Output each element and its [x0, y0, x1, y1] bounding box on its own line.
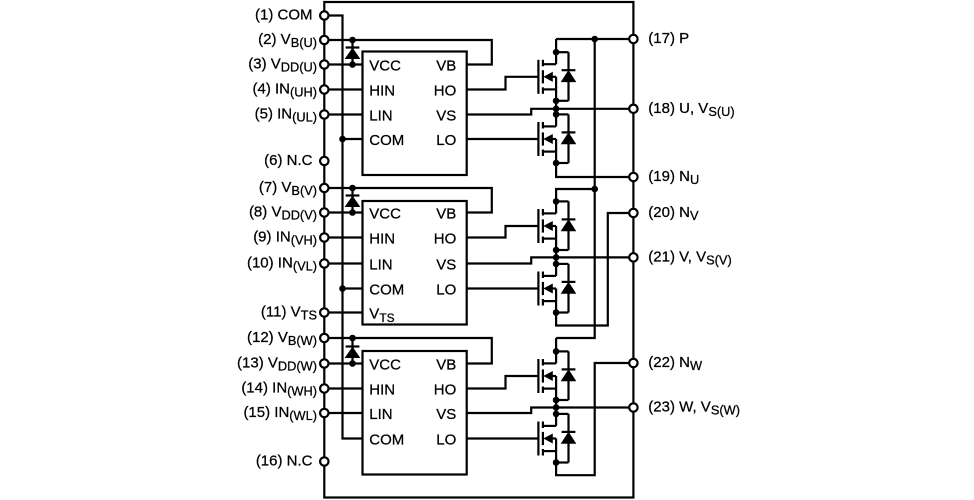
pin (22) terminal circle — [629, 359, 637, 367]
pin (2) label — [258, 31, 317, 50]
svg-text:(8) VDD(V): (8) VDD(V) — [249, 204, 317, 223]
pin (21) terminal circle — [629, 253, 637, 261]
pin (1) terminal circle — [320, 11, 328, 19]
pin (22) label — [648, 354, 703, 373]
svg-text:HO: HO — [434, 231, 457, 248]
pin (7) label — [259, 179, 317, 198]
junction drain of Q2 — [553, 111, 560, 118]
junction drain of Q4 — [553, 261, 560, 268]
svg-text:(9) IN(VH): (9) IN(VH) — [253, 229, 317, 248]
junction V_B(W)/diode cathode — [349, 335, 356, 342]
svg-text:VCC: VCC — [369, 206, 401, 223]
pin (17) label — [648, 30, 689, 47]
svg-text:(2) VB(U): (2) VB(U) — [258, 31, 317, 50]
body diode of Q5 — [556, 351, 575, 400]
svg-text:(19) NU: (19) NU — [648, 168, 699, 187]
MOSFET Q2 (U-phase low-side) — [538, 114, 556, 163]
driver U pin label COM — [369, 132, 404, 149]
junction drain of Q6 — [553, 411, 560, 418]
svg-text:(13) VDD(W): (13) VDD(W) — [237, 355, 317, 374]
pin (14) terminal circle — [320, 384, 328, 392]
wire VS(W): driver VS to output node — [467, 408, 556, 414]
wire VS(U): driver VS to output node — [467, 109, 556, 115]
bootstrap diode DV (VDD to VB) — [346, 188, 360, 213]
svg-text:LO: LO — [436, 132, 456, 149]
svg-text:VCC: VCC — [369, 357, 401, 374]
body diode of Q1 — [556, 52, 575, 101]
junction source of Q3 — [553, 247, 560, 254]
junction V_DD(V)/diode anode — [349, 209, 356, 216]
junction V_DD(U)/diode anode — [349, 61, 356, 68]
driver W pin label HIN — [369, 382, 395, 399]
junction drain of Q3 — [553, 198, 560, 205]
driver V pin label VCC — [369, 206, 401, 223]
node P bus top junction — [591, 36, 598, 43]
pin (9) terminal circle — [320, 233, 328, 241]
wire VS(V): driver VS to output node — [467, 257, 556, 263]
pin (11) terminal circle — [320, 308, 328, 316]
wire VDD(W): pin to driver VCC — [324, 362, 362, 364]
driver V pin label HO — [434, 231, 457, 248]
wire LO(U): driver LO to low-side gate — [467, 138, 539, 140]
module outline — [324, 2, 633, 498]
pin (7) terminal circle — [320, 184, 328, 192]
svg-text:(22) NW: (22) NW — [648, 354, 703, 373]
svg-text:(20) NV: (20) NV — [648, 204, 699, 223]
pin (4) label — [252, 81, 317, 100]
svg-text:VB: VB — [436, 357, 456, 374]
junction V_B(V)/diode cathode — [349, 185, 356, 192]
driver IC U-phase (half-bridge gate driver) — [363, 52, 467, 176]
pin (6) label — [264, 152, 313, 169]
svg-text:HO: HO — [434, 83, 457, 100]
wire P bus vertical — [556, 39, 595, 338]
wire Q4 source to pin (20) N_V — [556, 213, 633, 326]
svg-text:(6) N.C: (6) N.C — [264, 152, 313, 169]
svg-text:VS: VS — [436, 406, 456, 423]
wire U-phase mid node vertical — [555, 101, 557, 115]
wire P rail to pin (17) — [556, 38, 633, 40]
svg-text:(10) IN(VL): (10) IN(VL) — [247, 255, 317, 274]
junction P bus / Q3 drain feed — [591, 186, 598, 193]
body diode of Q3 — [556, 201, 575, 250]
pin (10) label — [247, 255, 317, 274]
svg-text:VTS: VTS — [369, 306, 394, 325]
driver W pin label VS — [436, 406, 456, 423]
pin (11) label — [261, 304, 317, 323]
driver U pin label LIN — [369, 108, 392, 125]
svg-text:LIN: LIN — [369, 257, 392, 274]
MOSFET Q3 (V-phase high-side) — [538, 201, 556, 250]
driver V pin label HIN — [369, 231, 395, 248]
svg-text:HIN: HIN — [369, 231, 395, 248]
driver V pin label LO — [436, 282, 456, 299]
body diode of Q4 — [556, 264, 575, 313]
pin (13) terminal circle — [320, 359, 328, 367]
driver V pin label VS — [436, 257, 456, 274]
svg-text:COM: COM — [369, 282, 404, 299]
wire VB(U) bootstrap supply: pin to driver VB — [324, 40, 492, 65]
pin (13) label — [237, 355, 317, 374]
wire HO(W): driver HO to high-side gate — [467, 376, 539, 389]
svg-text:(12) VB(W): (12) VB(W) — [247, 329, 317, 348]
pin (5) terminal circle — [320, 110, 328, 118]
wire VTS: pin (11) to driver V_TS — [324, 311, 362, 313]
driver IC W-phase (half-bridge gate driver) — [363, 351, 467, 475]
wire IN(UH): pin to driver HIN — [324, 88, 362, 90]
svg-text:LIN: LIN — [369, 108, 392, 125]
wire IN(VL): pin to driver LIN — [324, 262, 362, 264]
svg-text:LIN: LIN — [369, 406, 392, 423]
MOSFET Q1 (U-phase high-side) — [538, 52, 556, 101]
junction drain of Q5 — [553, 348, 560, 355]
svg-text:(11) VTS: (11) VTS — [261, 304, 317, 323]
svg-text:VS: VS — [436, 257, 456, 274]
wire COM tap to U driver — [343, 138, 363, 140]
svg-text:(3) VDD(U): (3) VDD(U) — [248, 56, 317, 75]
svg-text:(14) IN(WH): (14) IN(WH) — [241, 380, 317, 399]
pin (23) terminal circle — [629, 403, 637, 411]
svg-text:VCC: VCC — [369, 58, 401, 75]
wire node to pin (23) W — [556, 406, 633, 408]
driver U pin label VB — [436, 58, 456, 75]
driver IC V-phase (half-bridge gate driver) — [363, 201, 467, 325]
svg-text:(16) N.C: (16) N.C — [256, 453, 313, 470]
svg-text:COM: COM — [369, 432, 404, 449]
pin (14) label — [241, 380, 317, 399]
svg-text:(21) V, VS(V): (21) V, VS(V) — [648, 248, 731, 267]
pin (12) terminal circle — [320, 334, 328, 342]
svg-text:(5) IN(UL): (5) IN(UL) — [255, 106, 317, 125]
svg-text:VS: VS — [436, 108, 456, 125]
pin (18) terminal circle — [629, 105, 637, 113]
driver W pin label VCC — [369, 357, 401, 374]
pin (9) label — [253, 229, 317, 248]
wire HO(U): driver HO to high-side gate — [467, 77, 539, 90]
wire Q1 drain to P rail — [555, 39, 557, 52]
svg-text:(7) VB(V): (7) VB(V) — [259, 179, 317, 198]
junction source of Q2 — [553, 160, 560, 167]
junction V_B(U)/diode cathode — [349, 37, 356, 44]
junction source of Q5 — [553, 397, 560, 404]
pin (3) terminal circle — [320, 60, 328, 68]
svg-text:LO: LO — [436, 432, 456, 449]
wire V-phase mid node vertical — [555, 250, 557, 264]
junction COM bus / U driver — [339, 136, 346, 143]
svg-text:VB: VB — [436, 58, 456, 75]
driver W pin label VB — [436, 357, 456, 374]
pin (12) label — [247, 329, 317, 348]
svg-text:(15) IN(WL): (15) IN(WL) — [243, 404, 317, 423]
wire Q2 source to pin (19) N_U — [556, 163, 633, 177]
svg-text:HIN: HIN — [369, 83, 395, 100]
body diode of Q2 — [556, 114, 575, 163]
svg-text:(18) U, VS(U): (18) U, VS(U) — [648, 100, 734, 119]
wire P bus end to Q5 drain — [555, 338, 557, 351]
bootstrap diode DW (VDD to VB) — [346, 338, 360, 364]
MOSFET Q6 (W-phase low-side) — [538, 414, 556, 463]
wire HO(V): driver HO to high-side gate — [467, 226, 539, 238]
pin (5) label — [255, 106, 317, 125]
driver V pin label VB — [436, 206, 456, 223]
wire LO(W): driver LO to low-side gate — [467, 437, 539, 439]
pin (16) terminal circle — [320, 457, 328, 465]
driver W pin label LO — [436, 432, 456, 449]
wire node to pin (18) U — [556, 108, 633, 110]
junction drain of Q1 — [553, 49, 560, 56]
svg-text:(17) P: (17) P — [648, 30, 689, 47]
pin (16) label — [256, 453, 313, 470]
pin (2) terminal circle — [320, 36, 328, 44]
wire IN(VH): pin to driver HIN — [324, 236, 362, 238]
junction W output node — [553, 404, 560, 411]
svg-text:(1) COM: (1) COM — [255, 7, 313, 24]
pin (23) label — [648, 399, 740, 418]
pin (17) terminal circle — [629, 35, 637, 43]
driver U pin label HO — [434, 83, 457, 100]
junction V_DD(W)/diode anode — [349, 360, 356, 367]
driver V pin label LIN — [369, 257, 392, 274]
driver U pin label VCC — [369, 58, 401, 75]
pin (20) label — [648, 204, 699, 223]
junction source of Q4 — [553, 309, 560, 316]
wire LO(V): driver LO to low-side gate — [467, 287, 539, 289]
wire VB(V) bootstrap supply: pin to driver VB — [324, 188, 492, 213]
wire VDD(V): pin to driver VCC — [324, 211, 362, 213]
wire VB(W) bootstrap supply: pin to driver VB — [324, 338, 492, 364]
wire VDD(U): pin to driver VCC — [324, 63, 362, 65]
driver V pin label COM — [369, 282, 404, 299]
pin (10) terminal circle — [320, 259, 328, 267]
junction source of Q1 — [553, 98, 560, 105]
driver W pin label COM — [369, 432, 404, 449]
wire IN(WH): pin to driver HIN — [324, 387, 362, 389]
pin (1) label — [255, 7, 313, 24]
pin (4) terminal circle — [320, 85, 328, 93]
wire node to pin (21) V — [556, 256, 633, 258]
body diode of Q6 — [556, 414, 575, 463]
pin (8) label — [249, 204, 317, 223]
junction V output node — [553, 254, 560, 261]
MOSFET Q5 (W-phase high-side) — [538, 351, 556, 400]
wire IN(UL): pin to driver LIN — [324, 113, 362, 115]
driver W pin label LIN — [369, 406, 392, 423]
driver W pin label HO — [434, 382, 457, 399]
junction source of Q6 — [553, 459, 560, 466]
svg-text:COM: COM — [369, 132, 404, 149]
pin (19) terminal circle — [629, 173, 637, 181]
wire COM tap to V driver — [343, 287, 363, 289]
pin (6) terminal circle — [320, 157, 328, 165]
driver U pin label HIN — [369, 83, 395, 100]
svg-text:HIN: HIN — [369, 382, 395, 399]
MOSFET Q4 (V-phase low-side) — [538, 264, 556, 313]
wire COM bus from pin (1) — [324, 16, 362, 439]
pin (20) terminal circle — [629, 209, 637, 217]
wire W-phase mid node vertical — [555, 400, 557, 414]
pin (18) label — [648, 100, 734, 119]
svg-text:(23) W, VS(W): (23) W, VS(W) — [648, 399, 740, 418]
pin (15) terminal circle — [320, 409, 328, 417]
pin (8) terminal circle — [320, 208, 328, 216]
svg-text:HO: HO — [434, 382, 457, 399]
svg-text:VB: VB — [436, 206, 456, 223]
driver V pin label VTS — [369, 306, 394, 325]
wire Q6 source to pin (22) N_W — [556, 363, 633, 475]
pin (21) label — [648, 248, 731, 267]
pin (15) label — [243, 404, 317, 423]
svg-text:(4) IN(UH): (4) IN(UH) — [252, 81, 317, 100]
driver U pin label VS — [436, 108, 456, 125]
driver U pin label LO — [436, 132, 456, 149]
pin (3) label — [248, 56, 317, 75]
bootstrap diode DU (VDD to VB) — [346, 40, 360, 65]
wire P bus to Q3 drain — [556, 189, 595, 201]
pin (19) label — [648, 168, 699, 187]
wire IN(WL): pin to driver LIN — [324, 412, 362, 414]
junction U output node (VS/U pin wire) — [553, 106, 560, 113]
junction COM bus / V driver — [339, 285, 346, 292]
svg-text:LO: LO — [436, 282, 456, 299]
